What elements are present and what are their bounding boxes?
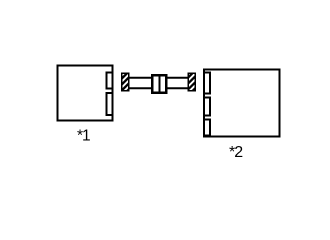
wire segment left top — [129, 77, 152, 79]
connector *2 terminal cavity 1 — [204, 73, 210, 94]
svg-text:*1: *1 — [77, 127, 90, 144]
shield terminal right (hatched) — [188, 73, 195, 91]
wire segment right top — [167, 77, 189, 79]
connector *1 terminal cavity 1 — [107, 73, 113, 89]
connector *2 body — [204, 70, 280, 137]
wire segment left bottom — [129, 87, 152, 89]
svg-text:*2: *2 — [229, 144, 243, 161]
joint connector J1 — [152, 75, 166, 93]
connector *1 body — [58, 66, 113, 121]
connector *1 terminal cavity 2 — [107, 93, 113, 115]
connector *2 terminal cavity 3 — [204, 120, 210, 136]
shield terminal left (hatched) — [122, 73, 129, 91]
connector *2 terminal cavity 2 — [204, 98, 210, 116]
wire segment right bottom — [167, 87, 189, 89]
joint connector divider — [159, 75, 161, 93]
